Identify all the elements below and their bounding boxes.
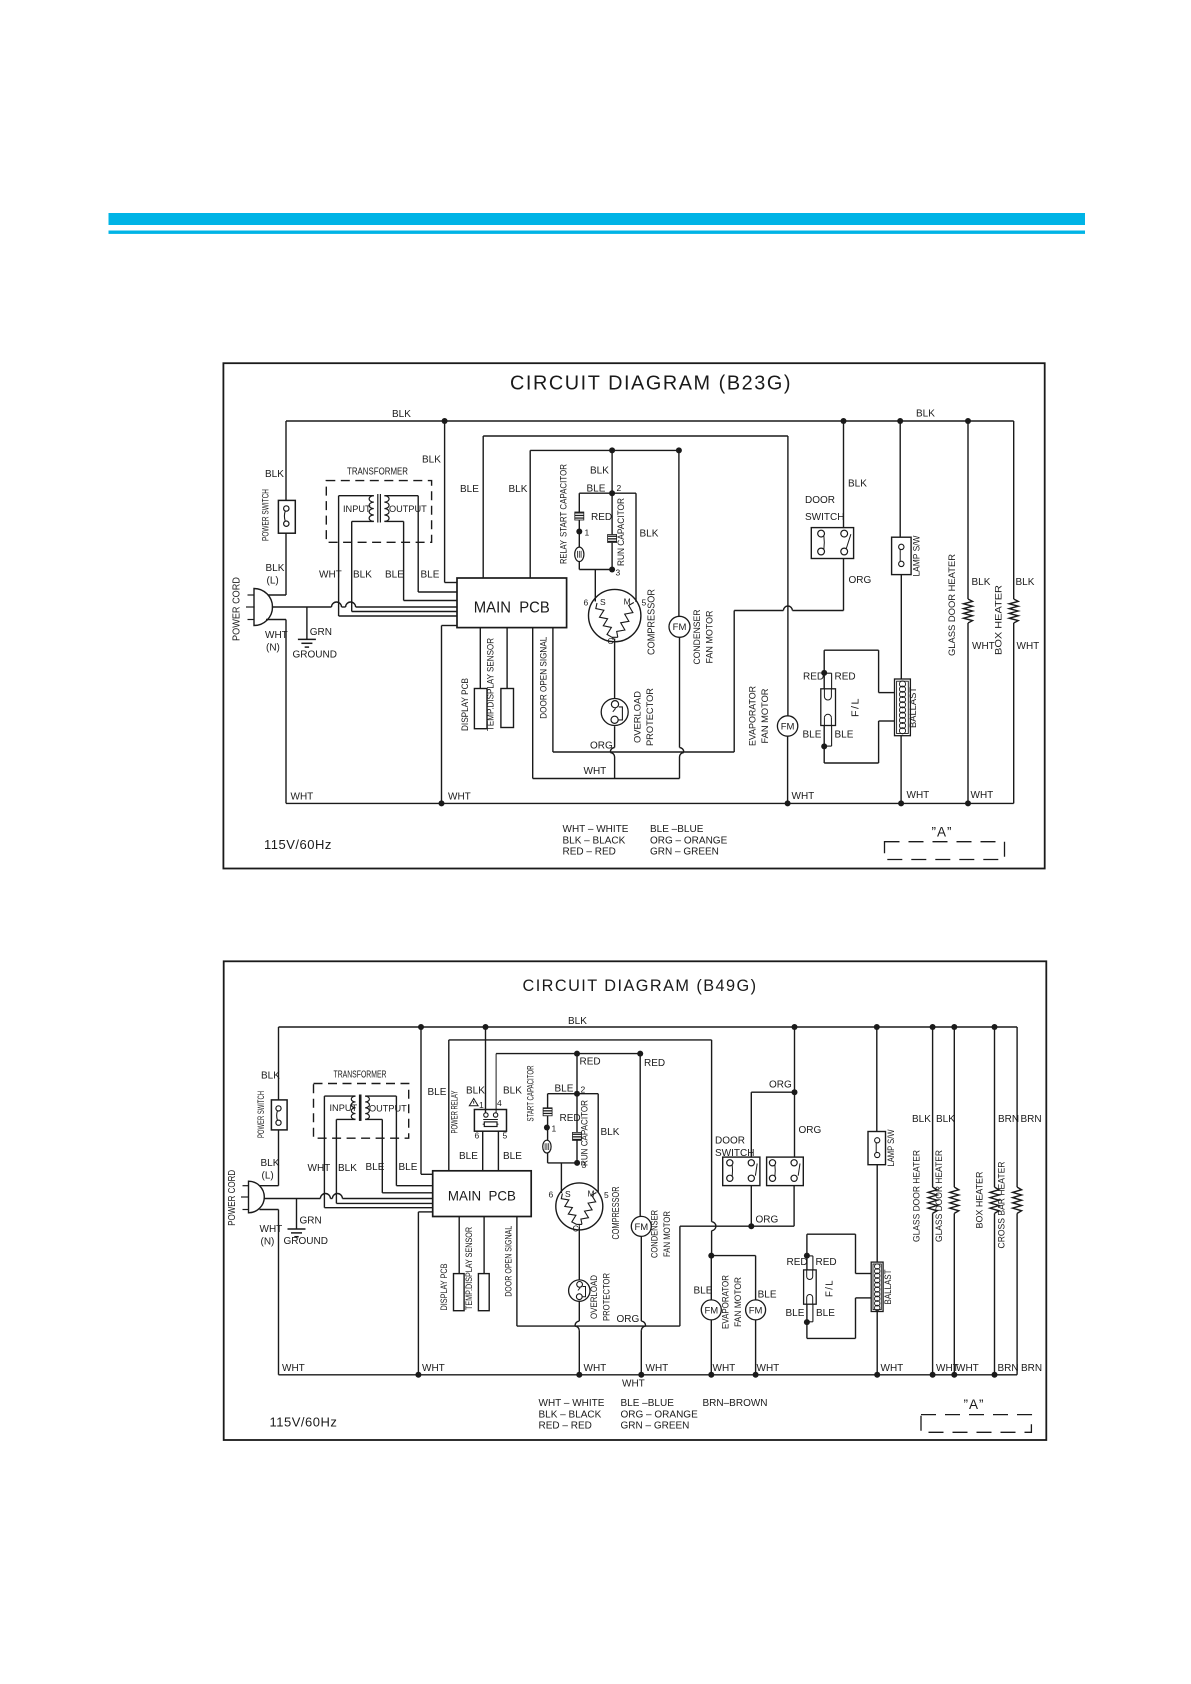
- node top bus pcb feed: [418, 1024, 424, 1030]
- svg-text:WHT: WHT: [956, 1363, 979, 1374]
- run capacitor C-run d2: [576, 1094, 578, 1133]
- wire gdh1 to bus: [932, 1213, 934, 1374]
- svg-text:FM: FM: [704, 1305, 718, 1316]
- node 3 d2: [574, 1160, 580, 1166]
- condenser fan motor FM1 d2: [631, 1216, 651, 1236]
- wire transformer BLK lead d2: [335, 1119, 337, 1203]
- svg-text:POWER RELAY: POWER RELAY: [450, 1091, 460, 1134]
- wire overload to WHT bus with jog over ORG d2: [578, 1301, 580, 1321]
- svg-text:RUN CAPACITOR: RUN CAPACITOR: [580, 1100, 590, 1166]
- wire condenser fan feed RED d2: [639, 1054, 641, 1217]
- node top bus glass door heater 1: [930, 1024, 936, 1030]
- svg-text:ORG – ORANGE: ORG – ORANGE: [621, 1409, 699, 1420]
- svg-text:BLK: BLK: [265, 469, 284, 480]
- svg-text:POWER CORD: POWER CORD: [232, 577, 243, 641]
- start relay coil: [578, 532, 580, 548]
- svg-text:DOOR: DOOR: [715, 1136, 745, 1147]
- wire transformer BLK lead: [351, 521, 353, 611]
- svg-text:(L): (L): [262, 1171, 274, 1182]
- svg-text:WHT: WHT: [265, 630, 288, 641]
- svg-text:BLE: BLE: [503, 1151, 522, 1162]
- wire box heater feed d2: [994, 1027, 996, 1187]
- wire display pcb lead d2: [458, 1217, 460, 1274]
- node 1 d2: [544, 1125, 550, 1131]
- wire cross bar heater to bus: [1016, 1213, 1018, 1374]
- wire switch to power cord BLK(L): [285, 533, 287, 595]
- svg-text:3: 3: [616, 568, 621, 578]
- wire BLK drop top bus to MAIN PCB: [444, 421, 446, 583]
- svg-text:COMPRESSOR: COMPRESSOR: [647, 589, 658, 655]
- svg-text:WHT – WHITE: WHT – WHITE: [563, 824, 629, 835]
- svg-text:WHT: WHT: [308, 1163, 331, 1174]
- fluorescent lamp F/L assembly: [824, 649, 878, 651]
- svg-text:RELAY: RELAY: [559, 540, 569, 564]
- diagram 1 border frame B23G: [223, 363, 1044, 868]
- svg-text:RED: RED: [835, 672, 856, 683]
- transformer dashed enclosure: [326, 481, 431, 543]
- svg-text:MAIN PCB: MAIN PCB: [474, 600, 550, 617]
- wire box heater to bus d2: [994, 1213, 996, 1374]
- svg-text:BRN: BRN: [998, 1114, 1019, 1125]
- svg-text:BLK: BLK: [266, 563, 285, 574]
- svg-text:WHT – WHITE: WHT – WHITE: [539, 1398, 605, 1409]
- svg-text:OUTPUT: OUTPUT: [369, 1104, 407, 1114]
- wire node2 drop BLK: [611, 450, 613, 493]
- svg-text:BLK: BLK: [261, 1158, 280, 1169]
- power switch S1: [278, 500, 295, 533]
- svg-text:1: 1: [479, 1100, 484, 1110]
- svg-text:TEMP.DISPLAY SENSOR: TEMP.DISPLAY SENSOR: [464, 1227, 474, 1310]
- svg-text:BLE: BLE: [555, 1084, 574, 1095]
- wire glass door heater to WHT bus: [967, 623, 969, 803]
- node WHT bus ballast: [898, 800, 904, 806]
- svg-text:WHT: WHT: [584, 1363, 607, 1374]
- svg-text:BRN: BRN: [1021, 1114, 1042, 1125]
- svg-text:RED: RED: [816, 1257, 837, 1268]
- svg-text:RUN CAPACITOR: RUN CAPACITOR: [616, 498, 626, 566]
- wire transformer BLE lead 2: [417, 496, 419, 592]
- node junction top bus lamp sw: [897, 418, 903, 424]
- svg-text:BLE: BLE: [758, 1290, 777, 1301]
- ballast L1: [895, 679, 911, 736]
- node top bus power relay: [483, 1024, 489, 1030]
- wire lamp sw to ballast: [900, 575, 902, 679]
- svg-text:BLK – BLACK: BLK – BLACK: [563, 835, 626, 846]
- run capacitor C-run: [611, 493, 613, 534]
- wire temp sensor lead d2: [483, 1217, 485, 1274]
- svg-text:CIRCUIT DIAGRAM (B49G): CIRCUIT DIAGRAM (B49G): [523, 976, 758, 995]
- wire condenser fan to WHT bus with jog d2: [640, 1236, 642, 1321]
- wire condenser fan to WHT return with jog: [679, 637, 681, 747]
- svg-text:WHT: WHT: [422, 1363, 445, 1374]
- svg-text:BLK: BLK: [972, 577, 991, 588]
- wire ORG feed from bus to switches: [794, 1027, 796, 1092]
- wire transformer BLE lead 1 d2: [381, 1119, 383, 1192]
- svg-text:WHT: WHT: [622, 1379, 645, 1390]
- wire power cord output WHT d2: [264, 1198, 320, 1200]
- svg-text:OUTPUT: OUTPUT: [389, 504, 427, 514]
- wire evap fans to WHT bus: [710, 1320, 712, 1375]
- node top bus door switch org: [792, 1024, 798, 1030]
- svg-text:5: 5: [503, 1131, 508, 1141]
- svg-text:115V/60Hz: 115V/60Hz: [270, 1415, 338, 1430]
- svg-text:BLE: BLE: [459, 1151, 478, 1162]
- svg-text:RED: RED: [787, 1257, 808, 1268]
- wire ballast to WHT bus d2: [876, 1312, 878, 1375]
- svg-text:1: 1: [585, 528, 590, 538]
- svg-text:BLE: BLE: [385, 570, 404, 581]
- node evap split: [708, 1253, 714, 1259]
- cross bar heater R4: [1013, 1187, 1022, 1213]
- ground wire GRN d2: [296, 1199, 298, 1230]
- start relay coil d2: [547, 1128, 549, 1141]
- svg-text:COMPRESSOR: COMPRESSOR: [611, 1187, 622, 1240]
- wire power switch feed d2: [278, 1027, 280, 1100]
- svg-text:6: 6: [475, 1131, 480, 1141]
- wire compressor C to overload d2: [578, 1227, 580, 1280]
- svg-text:GRN – GREEN: GRN – GREEN: [621, 1421, 690, 1432]
- svg-text:BRN: BRN: [998, 1363, 1019, 1374]
- ground symbol d2: [288, 1228, 306, 1230]
- svg-text:GRN – GREEN: GRN – GREEN: [650, 847, 719, 858]
- svg-text:BLK: BLK: [1016, 577, 1035, 588]
- node top bus box heater: [992, 1024, 998, 1030]
- svg-text:WHT: WHT: [282, 1363, 305, 1374]
- svg-text:BLE: BLE: [786, 1308, 805, 1319]
- wire transformer WHT lead d2: [323, 1096, 325, 1208]
- svg-text:F/L: F/L: [850, 697, 862, 717]
- svg-text:BLE: BLE: [816, 1308, 835, 1319]
- overload protector OL1: [601, 699, 628, 726]
- door switch S2b: [767, 1157, 804, 1186]
- svg-text:WHT: WHT: [971, 790, 994, 801]
- svg-text:6: 6: [584, 598, 589, 608]
- svg-text:WHT: WHT: [1017, 641, 1040, 652]
- svg-text:6: 6: [549, 1190, 554, 1200]
- node WHT bus pcb drop: [439, 800, 445, 806]
- evaporator fan motor FM2: [777, 716, 797, 736]
- wire box heater feed BLK: [1013, 421, 1015, 599]
- svg-text:LAMP S/W: LAMP S/W: [886, 1129, 896, 1166]
- node 1: [576, 529, 582, 535]
- transformer T1 windings d2: [324, 1095, 355, 1097]
- svg-text:POWER CORD: POWER CORD: [227, 1170, 238, 1226]
- svg-text:TRANSFORMER: TRANSFORMER: [334, 1070, 387, 1081]
- ballast L1 d2: [871, 1262, 883, 1311]
- svg-text:BLE: BLE: [428, 1087, 447, 1098]
- svg-text:BLK: BLK: [466, 1086, 485, 1097]
- svg-text:RED – RED: RED – RED: [563, 847, 616, 858]
- svg-text:BLK: BLK: [848, 479, 867, 490]
- svg-text:BLE: BLE: [835, 730, 854, 741]
- svg-text:BLK: BLK: [338, 1163, 357, 1174]
- svg-text:OVERLOAD: OVERLOAD: [589, 1275, 599, 1319]
- svg-text:EVAPORATOR: EVAPORATOR: [720, 1275, 730, 1329]
- relay warning triangle: [469, 1099, 478, 1106]
- wire ORG bus door open signal: [552, 628, 554, 752]
- svg-text:CIRCUIT DIAGRAM (B23G): CIRCUIT DIAGRAM (B23G): [510, 372, 792, 395]
- wire WHT return from MAIN PCB: [532, 628, 534, 779]
- node top bus glass door heater 2: [951, 1024, 957, 1030]
- svg-text:PROTECTOR: PROTECTOR: [602, 1273, 612, 1321]
- wire WHT bottom bus d2: [279, 1374, 1018, 1376]
- svg-text:GRN: GRN: [310, 627, 332, 638]
- svg-text:BLE: BLE: [421, 570, 440, 581]
- wire temp display sensor lead: [506, 628, 508, 689]
- svg-text:BLK: BLK: [936, 1114, 955, 1125]
- glass door heater R1 d2: [928, 1187, 937, 1213]
- wire WHT bottom bus: [286, 802, 1014, 804]
- svg-text:GRN: GRN: [300, 1216, 322, 1227]
- wire BLK rail from MAIN PCB top (wire3): [529, 450, 531, 578]
- power cord plug: [254, 589, 273, 626]
- svg-text:CONDENSER: CONDENSER: [649, 1210, 659, 1258]
- svg-text:FAN MOTOR: FAN MOTOR: [705, 610, 715, 663]
- svg-text:FAN MOTOR: FAN MOTOR: [733, 1277, 743, 1327]
- wire cross bar heater feed: [1016, 1027, 1018, 1187]
- wire ORG to switch2: [794, 1092, 796, 1157]
- svg-text:WHT: WHT: [792, 791, 815, 802]
- nodes WHT bus d2: [415, 1372, 421, 1378]
- svg-text:5: 5: [604, 1190, 609, 1200]
- compressor M1: [589, 589, 641, 641]
- wire ORG door open signal d2: [516, 1217, 518, 1327]
- svg-text:4: 4: [497, 1098, 502, 1108]
- svg-text:OVERLOAD: OVERLOAD: [633, 691, 643, 743]
- svg-text:BOX HEATER: BOX HEATER: [994, 585, 1004, 655]
- wire relay pin5 to PCB BLE: [497, 1131, 499, 1171]
- svg-text:DOOR OPEN SIGNAL: DOOR OPEN SIGNAL: [538, 637, 548, 719]
- svg-text:RED: RED: [803, 672, 824, 683]
- transformer T1 windings: [339, 495, 374, 497]
- svg-text:FM: FM: [634, 1222, 648, 1233]
- wire BLE rail from MAIN PCB top d2: [448, 1040, 450, 1171]
- sensor TEMP.DISPLAY SENSOR: [501, 689, 514, 728]
- svg-text:2: 2: [617, 483, 622, 493]
- svg-text:M: M: [588, 1189, 595, 1199]
- svg-text:RED – RED: RED – RED: [539, 1421, 592, 1432]
- svg-text:START CAPACITOR: START CAPACITOR: [559, 464, 569, 537]
- compressor windings d2: [561, 1194, 576, 1225]
- svg-text:WHT: WHT: [584, 766, 607, 777]
- lamp switch S3 d2: [868, 1132, 886, 1165]
- ground symbol: [298, 638, 316, 640]
- wire MAIN PCB neutral drop d2: [418, 1211, 432, 1213]
- wire gdh2 to bus: [953, 1213, 955, 1374]
- svg-text:BLK: BLK: [912, 1114, 931, 1125]
- wire evap rail: [711, 1255, 755, 1257]
- svg-text:WHT: WHT: [757, 1363, 780, 1374]
- svg-text:CROSS BAR HEATER: CROSS BAR HEATER: [996, 1161, 1006, 1248]
- svg-text:BALLAST: BALLAST: [908, 687, 918, 728]
- wire power switch feed BLK: [285, 421, 287, 500]
- wire WHT(N) down d2: [260, 1209, 279, 1211]
- node top bus lamp sw d2: [874, 1024, 880, 1030]
- svg-text:WHT: WHT: [319, 570, 342, 581]
- svg-text:C: C: [608, 636, 614, 646]
- wire relay pin6 to PCB BLE: [482, 1131, 484, 1171]
- wire display pcb lead: [479, 628, 481, 689]
- wire BLE rail from MAIN PCB top: [482, 436, 484, 578]
- wire evap feed BLE with jog over ORG line: [711, 1040, 713, 1222]
- ground wire GRN: [306, 607, 308, 639]
- compressor windings: [596, 603, 612, 637]
- svg-text:BLE –BLUE: BLE –BLUE: [621, 1398, 675, 1409]
- node ORG split: [792, 1089, 798, 1095]
- node WHT bus glass door heater: [965, 800, 971, 806]
- power cord plug d2: [249, 1181, 265, 1213]
- compressor S feed: [594, 570, 596, 602]
- svg-text:LAMP S/W: LAMP S/W: [911, 535, 921, 576]
- svg-text:BLK: BLK: [261, 1071, 280, 1082]
- svg-text:BLK: BLK: [916, 409, 935, 420]
- svg-text:BRN: BRN: [1021, 1363, 1042, 1374]
- node 3: [609, 567, 615, 573]
- display board DISPLAY PCB: [474, 689, 487, 729]
- svg-text:WHT: WHT: [448, 792, 471, 803]
- wire evaporator fan feed BLE: [787, 436, 789, 716]
- wire lamp sw feed d2: [876, 1027, 878, 1132]
- svg-text:”A”: ”A”: [964, 1397, 985, 1412]
- svg-text:EVAPORATOR: EVAPORATOR: [748, 686, 758, 746]
- svg-text:BRN–BROWN: BRN–BROWN: [703, 1398, 768, 1409]
- compressor M1 d2: [556, 1183, 603, 1230]
- lamp switch S3: [892, 537, 912, 574]
- svg-text:GROUND: GROUND: [284, 1236, 328, 1247]
- node wire3 junction node2 drop: [609, 447, 615, 453]
- svg-text:WHT: WHT: [881, 1363, 904, 1374]
- svg-text:WHT: WHT: [972, 641, 995, 652]
- wire relay pin4 to RED rail: [495, 1054, 497, 1113]
- wire glass door heater 2 feed: [953, 1027, 955, 1187]
- power switch S1 d2: [271, 1100, 287, 1130]
- svg-text:GLASS DOOR HEATER: GLASS DOOR HEATER: [934, 1150, 944, 1242]
- svg-text:ORG: ORG: [769, 1080, 792, 1091]
- svg-text:PROTECTOR: PROTECTOR: [645, 688, 655, 746]
- svg-text:ORG: ORG: [590, 741, 613, 752]
- svg-text:RED: RED: [644, 1058, 665, 1069]
- svg-text:FM: FM: [781, 721, 795, 732]
- relay loop bottom rail d2: [548, 1162, 578, 1164]
- svg-text:BLE: BLE: [694, 1286, 713, 1297]
- svg-text:INPUT: INPUT: [343, 504, 371, 514]
- header rule thin cyan line: [109, 231, 1086, 234]
- svg-text:DOOR OPEN SIGNAL: DOOR OPEN SIGNAL: [503, 1226, 513, 1297]
- display board DISPLAY PCB d2: [454, 1274, 465, 1311]
- svg-text:BLK: BLK: [590, 466, 609, 477]
- condenser fan motor FM1: [669, 616, 690, 637]
- glass door heater R2 d2: [950, 1187, 959, 1213]
- svg-text:”A”: ”A”: [932, 825, 953, 840]
- svg-text:ORG: ORG: [756, 1215, 779, 1226]
- svg-text:GLASS DOOR HEATER: GLASS DOOR HEATER: [947, 554, 957, 656]
- svg-text:WHT: WHT: [713, 1363, 736, 1374]
- wire WHT(N) neutral down: [266, 619, 286, 621]
- svg-text:FAN MOTOR: FAN MOTOR: [760, 688, 770, 743]
- wire MAIN PCB neutral drop to WHT bus: [442, 625, 458, 627]
- wire glass door heater feed BLK: [967, 421, 969, 599]
- wire top BLK bus: [286, 420, 1014, 422]
- svg-text:ORG: ORG: [617, 1314, 640, 1325]
- box heater R2: [1009, 599, 1018, 623]
- wire transformer BLE lead 2 d2: [395, 1096, 397, 1186]
- header rule thick cyan bar: [109, 213, 1086, 225]
- svg-text:(L): (L): [267, 576, 279, 587]
- wire box heater to WHT bus: [1013, 623, 1015, 803]
- svg-text:FM: FM: [673, 622, 687, 633]
- svg-text:SWITCH: SWITCH: [805, 512, 844, 523]
- svg-text:F/L: F/L: [823, 1279, 835, 1297]
- wire glass door heater 1 feed: [932, 1027, 934, 1187]
- overload protector OL1 d2: [569, 1280, 590, 1301]
- transformer dashed enclosure d2: [314, 1084, 409, 1139]
- svg-text:BLK: BLK: [640, 529, 659, 540]
- wire RED rail from relay pin4: [496, 1053, 640, 1055]
- svg-text:1: 1: [552, 1124, 557, 1134]
- svg-text:S: S: [565, 1189, 571, 1199]
- svg-text:TRANSFORMER: TRANSFORMER: [347, 467, 408, 478]
- svg-text:BLK: BLK: [601, 1127, 620, 1138]
- wire ORG branch to switch1: [751, 1091, 794, 1093]
- svg-text:CONDENSER: CONDENSER: [692, 609, 702, 664]
- svg-text:(N): (N): [266, 643, 280, 654]
- relay loop right rail BLK to compressor M: [635, 493, 637, 602]
- wire condenser fan feed: [678, 450, 680, 616]
- wire node2 drop d2: [576, 1054, 578, 1094]
- node ORG line door switch 1: [748, 1223, 754, 1229]
- node junction top bus glass door heater: [965, 418, 971, 424]
- node RED rail end cond fan: [637, 1051, 643, 1057]
- node WHT bus evap fan: [785, 800, 791, 806]
- svg-text:DISPLAY PCB: DISPLAY PCB: [439, 1264, 449, 1311]
- svg-text:POWER SWITCH: POWER SWITCH: [256, 1091, 266, 1138]
- wire compressor C to overload: [614, 639, 616, 699]
- svg-text:BLE: BLE: [399, 1162, 418, 1173]
- svg-text:BLK: BLK: [568, 1016, 587, 1027]
- svg-text:BLE: BLE: [366, 1162, 385, 1173]
- svg-text:RED: RED: [591, 512, 612, 523]
- svg-text:(N): (N): [261, 1237, 275, 1248]
- svg-text:BLK – BLACK: BLK – BLACK: [539, 1409, 602, 1420]
- node junction top bus to MAIN PCB drop: [442, 418, 448, 424]
- svg-text:S: S: [600, 597, 606, 607]
- svg-text:WHT: WHT: [260, 1224, 283, 1235]
- wire BLK drop bus to MAIN PCB d2: [420, 1027, 422, 1174]
- node RED rail node2 drop: [574, 1051, 580, 1057]
- svg-text:BLK: BLK: [503, 1086, 522, 1097]
- svg-text:FAN MOTOR: FAN MOTOR: [662, 1211, 672, 1257]
- svg-text:C: C: [573, 1224, 579, 1234]
- wire door switch feed BLK: [843, 421, 845, 528]
- fluorescent lamp F/L assembly d2: [807, 1233, 856, 1235]
- svg-text:BLE –BLUE: BLE –BLUE: [650, 824, 704, 835]
- wire transformer WHT lead: [338, 496, 340, 616]
- svg-text:M: M: [624, 597, 631, 607]
- svg-text:FM: FM: [749, 1305, 763, 1316]
- svg-text:BLK: BLK: [353, 570, 372, 581]
- main board U1 MAIN PCB: [457, 578, 567, 628]
- svg-text:BLE: BLE: [460, 484, 479, 495]
- svg-text:ORG – ORANGE: ORG – ORANGE: [650, 835, 728, 846]
- svg-text:BLK: BLK: [509, 484, 528, 495]
- svg-text:115V/60Hz: 115V/60Hz: [264, 837, 332, 852]
- svg-text:BALLAST: BALLAST: [883, 1269, 893, 1304]
- svg-text:GLASS DOOR HEATER: GLASS DOOR HEATER: [911, 1150, 921, 1242]
- svg-text:WHT: WHT: [646, 1363, 669, 1374]
- svg-text:BLK: BLK: [392, 409, 411, 420]
- svg-text:WHT: WHT: [291, 792, 314, 803]
- wire switch to cord BLK(L) d2: [278, 1130, 280, 1186]
